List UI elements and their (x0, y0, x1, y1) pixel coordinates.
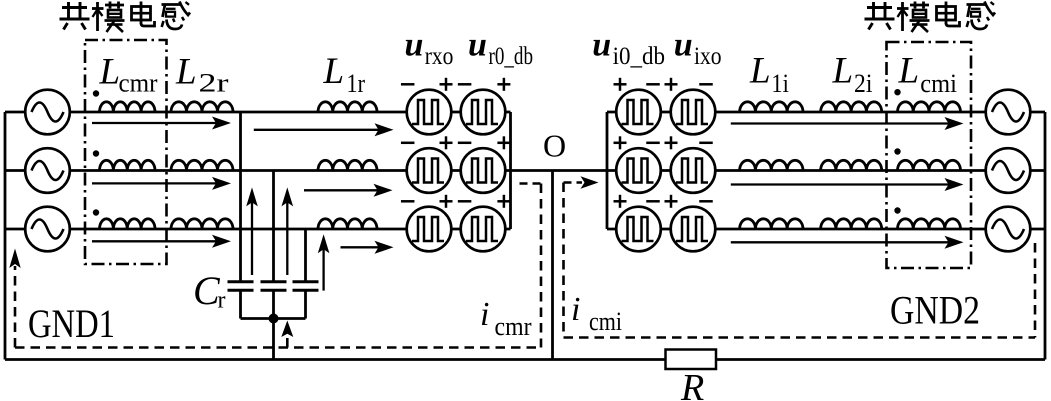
label node O (543, 128, 566, 164)
dashed i_cmr loop top stub (520, 182, 542, 185)
wire left edge bus (4, 112, 7, 360)
label R (680, 367, 704, 401)
inductor L_2r phase 1 (171, 102, 233, 112)
pulse source u_r0_db phase 1 (461, 90, 506, 135)
inductor L_2i phase 3 (821, 219, 882, 229)
dashed i_cmi loop right edge (1034, 243, 1037, 338)
AC source left phase 1 (25, 90, 70, 135)
polarity dot L_cmr (93, 209, 99, 215)
plus sign u_ixo row 1 (665, 78, 678, 91)
dashed i_cmr loop right edge (540, 184, 543, 348)
svg-text:cmi: cmi (589, 307, 622, 336)
svg-text:ixo: ixo (694, 43, 722, 70)
wire cap3 bottom stub (304, 290, 307, 318)
AC source left phase 2 (25, 148, 70, 193)
minus sign u_rxo row 2 (401, 142, 415, 145)
wire bottom ground bus left of R (5, 358, 666, 361)
inductor L_cmi phase 2 (898, 160, 961, 170)
label C_r (193, 268, 226, 314)
label GND2 (890, 288, 980, 333)
label u_i0_db (592, 27, 665, 71)
wire cap2 bottom stub (272, 290, 275, 318)
label L_cmr (99, 52, 158, 98)
svg-text:u: u (674, 27, 693, 64)
label u_rxo (405, 27, 454, 71)
current arrow phase 2 under L_2r (92, 177, 231, 190)
dashed i_cmi loop top arrow (564, 176, 599, 188)
inductor L_cmi phase 1 (898, 102, 961, 112)
wire node O middle link (511, 169, 608, 172)
plus sign u_r0_db row 3 (497, 195, 510, 208)
wire phase 1 right (607, 111, 1045, 114)
plus sign u_r0_db row 1 (497, 78, 510, 91)
wire C_r lead phase 2 (272, 171, 275, 282)
plus sign u_i0_db row 2 (614, 136, 627, 149)
inductor L_cmr phase 3 (100, 219, 156, 229)
dashed arrow into cap star point (281, 321, 293, 348)
up arrow cap branch C (318, 234, 330, 290)
svg-text:i0_db: i0_db (613, 43, 665, 70)
wire phase 1 left (5, 111, 511, 114)
inductor L_1r phase 3 (318, 219, 377, 229)
pulse source u_i0_db phase 3 (616, 207, 661, 252)
svg-text:r0_db: r0_db (489, 43, 534, 70)
pulse source u_ixo phase 3 (671, 207, 716, 252)
label L_1i (749, 51, 789, 99)
current arrow phase 3 under L_1r (341, 241, 394, 254)
svg-text:1i: 1i (771, 69, 788, 98)
junction dot capacitor star point (269, 314, 279, 324)
label u_r0_db (468, 27, 533, 71)
current arrow phase 2 under L_1r (304, 184, 393, 197)
svg-text:u: u (468, 27, 487, 64)
label 共模电感 (right CM choke title) (865, 2, 996, 33)
svg-text:GND2: GND2 (890, 288, 980, 333)
svg-text:L: L (175, 52, 197, 93)
wire phase 2 right (607, 169, 1045, 172)
current arrow phase 3 under L_2r (92, 235, 231, 248)
svg-text:u: u (592, 27, 611, 64)
polarity dot L_cmi (894, 89, 900, 95)
svg-text:L: L (749, 51, 771, 92)
plus sign u_rxo row 3 (440, 195, 453, 208)
inductor L_2i phase 2 (821, 160, 882, 170)
svg-text:r: r (218, 288, 226, 314)
label GND1 (28, 301, 115, 346)
wire phase 3 right (607, 228, 1045, 231)
wire left source bus (509, 112, 512, 229)
minus sign u_r0_db row 2 (458, 142, 472, 145)
minus sign u_r0_db row 1 (458, 83, 472, 86)
plus sign u_i0_db row 1 (614, 78, 627, 91)
inductor L_1r phase 1 (318, 102, 377, 112)
pulse source u_i0_db phase 2 (616, 148, 661, 193)
label L_1r (323, 51, 366, 98)
label i_cmi (571, 291, 622, 336)
pulse source u_ixo phase 2 (671, 148, 716, 193)
up arrow cap branch A (246, 187, 258, 275)
svg-text:u: u (405, 27, 424, 64)
wire star point to ground bus (272, 319, 275, 360)
current arrow phase 3 right (731, 236, 964, 249)
plus sign u_ixo row 3 (665, 195, 678, 208)
polarity dot L_cmr (93, 150, 99, 156)
plus sign u_i0_db row 3 (614, 195, 627, 208)
AC source right phase 1 (986, 90, 1031, 135)
pulse source u_rxo phase 1 (407, 90, 452, 135)
capacitor C_r 2 (261, 282, 287, 291)
minus sign u_ixo row 3 (699, 200, 713, 203)
AC source right phase 3 (986, 207, 1031, 252)
svg-text:O: O (543, 128, 566, 164)
plus sign u_ixo row 2 (665, 136, 678, 149)
wire C_r lead phase 1 (239, 112, 242, 282)
svg-text:L: L (898, 51, 920, 92)
dashed i_cmr loop left edge with up arrow (9, 249, 20, 348)
CM choke L_cmi dash-dot box (887, 42, 972, 268)
svg-text:L: L (832, 51, 854, 92)
inductor L_1r phase 2 (318, 160, 377, 170)
label u_ixo (674, 27, 722, 71)
svg-text:cmr: cmr (495, 312, 532, 341)
capacitor C_r 1 (228, 282, 254, 291)
svg-text:cmr: cmr (119, 69, 158, 98)
minus sign u_i0_db row 2 (646, 142, 660, 145)
dashed i_cmi loop left edge (562, 183, 565, 338)
up arrow cap branch B (282, 187, 294, 275)
wire node O to ground bus (551, 171, 554, 360)
wire right edge bus (1044, 112, 1047, 360)
resistor R (666, 350, 717, 370)
inductor L_2r phase 2 (171, 160, 233, 170)
inductor L_1i phase 1 (740, 102, 803, 112)
inductor L_cmr phase 1 (100, 102, 156, 112)
inductor L_2r phase 3 (171, 219, 233, 229)
current arrow phase 2 right (731, 178, 964, 191)
minus sign u_i0_db row 3 (646, 200, 660, 203)
svg-text:i: i (480, 296, 489, 333)
capacitor C_r 3 (293, 282, 319, 291)
label L_cmi (898, 51, 957, 99)
dashed i_cmi loop bottom (564, 336, 1036, 339)
minus sign u_ixo row 2 (699, 142, 713, 145)
minus sign u_ixo row 1 (699, 83, 713, 86)
pulse source u_r0_db phase 2 (461, 148, 506, 193)
pulse source u_rxo phase 3 (407, 207, 452, 252)
wire cap1 bottom stub (239, 290, 242, 318)
svg-text:cmi: cmi (920, 69, 957, 98)
label L_2i (832, 51, 873, 99)
label L_2r (175, 52, 229, 98)
inductor L_1i phase 2 (740, 160, 803, 170)
wire phase 3 left (5, 228, 511, 231)
pulse source u_r0_db phase 3 (461, 207, 506, 252)
polarity dot L_cmi (894, 207, 900, 213)
svg-text:GND1: GND1 (28, 301, 115, 346)
label 共模电感 (left CM choke title) (60, 2, 191, 33)
wire C_r lead phase 3 (304, 229, 307, 282)
wire capacitor common bus (241, 317, 306, 320)
svg-text:2r: 2r (199, 69, 229, 98)
label i_cmr (480, 296, 532, 341)
minus sign u_r0_db row 3 (458, 200, 472, 203)
polarity dot L_cmi (894, 148, 900, 154)
minus sign u_rxo row 3 (401, 200, 415, 203)
dashed i_cmr loop bottom (15, 346, 541, 349)
AC source left phase 3 (25, 207, 70, 252)
plus sign u_r0_db row 2 (497, 136, 510, 149)
inductor L_cmr phase 2 (100, 160, 156, 170)
CM choke L_cmr dash-dot box (85, 40, 167, 264)
minus sign u_rxo row 1 (401, 83, 415, 86)
minus sign u_i0_db row 1 (646, 83, 660, 86)
current arrow phase 1 under L_1r (254, 123, 394, 136)
polarity dot L_cmr (93, 90, 99, 96)
pulse source u_ixo phase 1 (671, 90, 716, 135)
current arrow phase 1 right (731, 117, 964, 130)
inductor L_1i phase 3 (740, 219, 803, 229)
plus sign u_rxo row 1 (440, 78, 453, 91)
plus sign u_rxo row 2 (440, 136, 453, 149)
svg-text:rxo: rxo (425, 43, 454, 70)
pulse source u_i0_db phase 1 (616, 90, 661, 135)
svg-text:L: L (99, 52, 121, 93)
inductor L_cmi phase 3 (898, 219, 961, 229)
AC source right phase 2 (986, 148, 1031, 193)
current arrow phase 1 under L_2r (92, 117, 231, 130)
svg-text:1r: 1r (347, 69, 366, 98)
svg-text:i: i (571, 291, 580, 328)
wire bottom ground bus right of R (716, 358, 1045, 361)
svg-text:2i: 2i (854, 69, 872, 98)
svg-text:R: R (680, 367, 704, 401)
svg-text:L: L (323, 51, 345, 92)
pulse source u_rxo phase 2 (407, 148, 452, 193)
wire phase 2 left (5, 169, 511, 172)
wire right source bus (606, 112, 609, 229)
inductor L_2i phase 1 (821, 102, 882, 112)
